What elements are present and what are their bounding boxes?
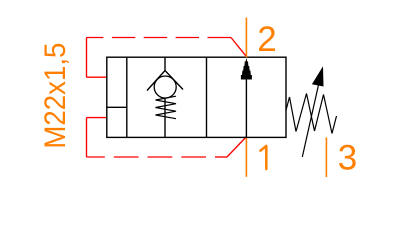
svg-text:M22x1,5: M22x1,5 — [39, 43, 72, 149]
wire: red diagonal to port 2 — [231, 38, 246, 57]
check valve spring — [156, 96, 177, 119]
svg-text:2: 2 — [257, 20, 276, 59]
port 1 line — [245, 138, 247, 177]
wire: red left vertical upper — [86, 38, 88, 78]
wire: red stub lower to body — [87, 117, 107, 119]
svg-text:3: 3 — [338, 139, 357, 178]
check valve ball — [154, 76, 176, 98]
port 3 line — [325, 137, 327, 177]
adjustment arrow head — [312, 66, 324, 86]
adjustment arrow shaft — [302, 76, 320, 157]
wire: red dashed top line — [87, 37, 104, 39]
port 1 label — [260, 146, 266, 169]
wire: red dashed bottom line — [87, 156, 105, 158]
pilot compartment divider — [107, 106, 127, 108]
valve body rectangle — [107, 57, 286, 137]
division line right — [206, 57, 208, 137]
check valve stem — [164, 57, 166, 70]
cartridge envelope left side (red) — [87, 38, 247, 158]
check valve seat — [147, 71, 183, 91]
wire: red diagonal to port 1 — [227, 137, 246, 157]
wire: red stub upper to body — [87, 76, 107, 78]
flow arrow head — [241, 58, 252, 80]
division line left — [126, 57, 128, 137]
port 2 line — [245, 18, 247, 58]
check valve center line — [164, 98, 166, 137]
wire: red left vertical lower — [86, 118, 88, 157]
relief spring zigzag — [286, 94, 337, 134]
flow arrow shaft port1 to port2 — [245, 79, 247, 137]
